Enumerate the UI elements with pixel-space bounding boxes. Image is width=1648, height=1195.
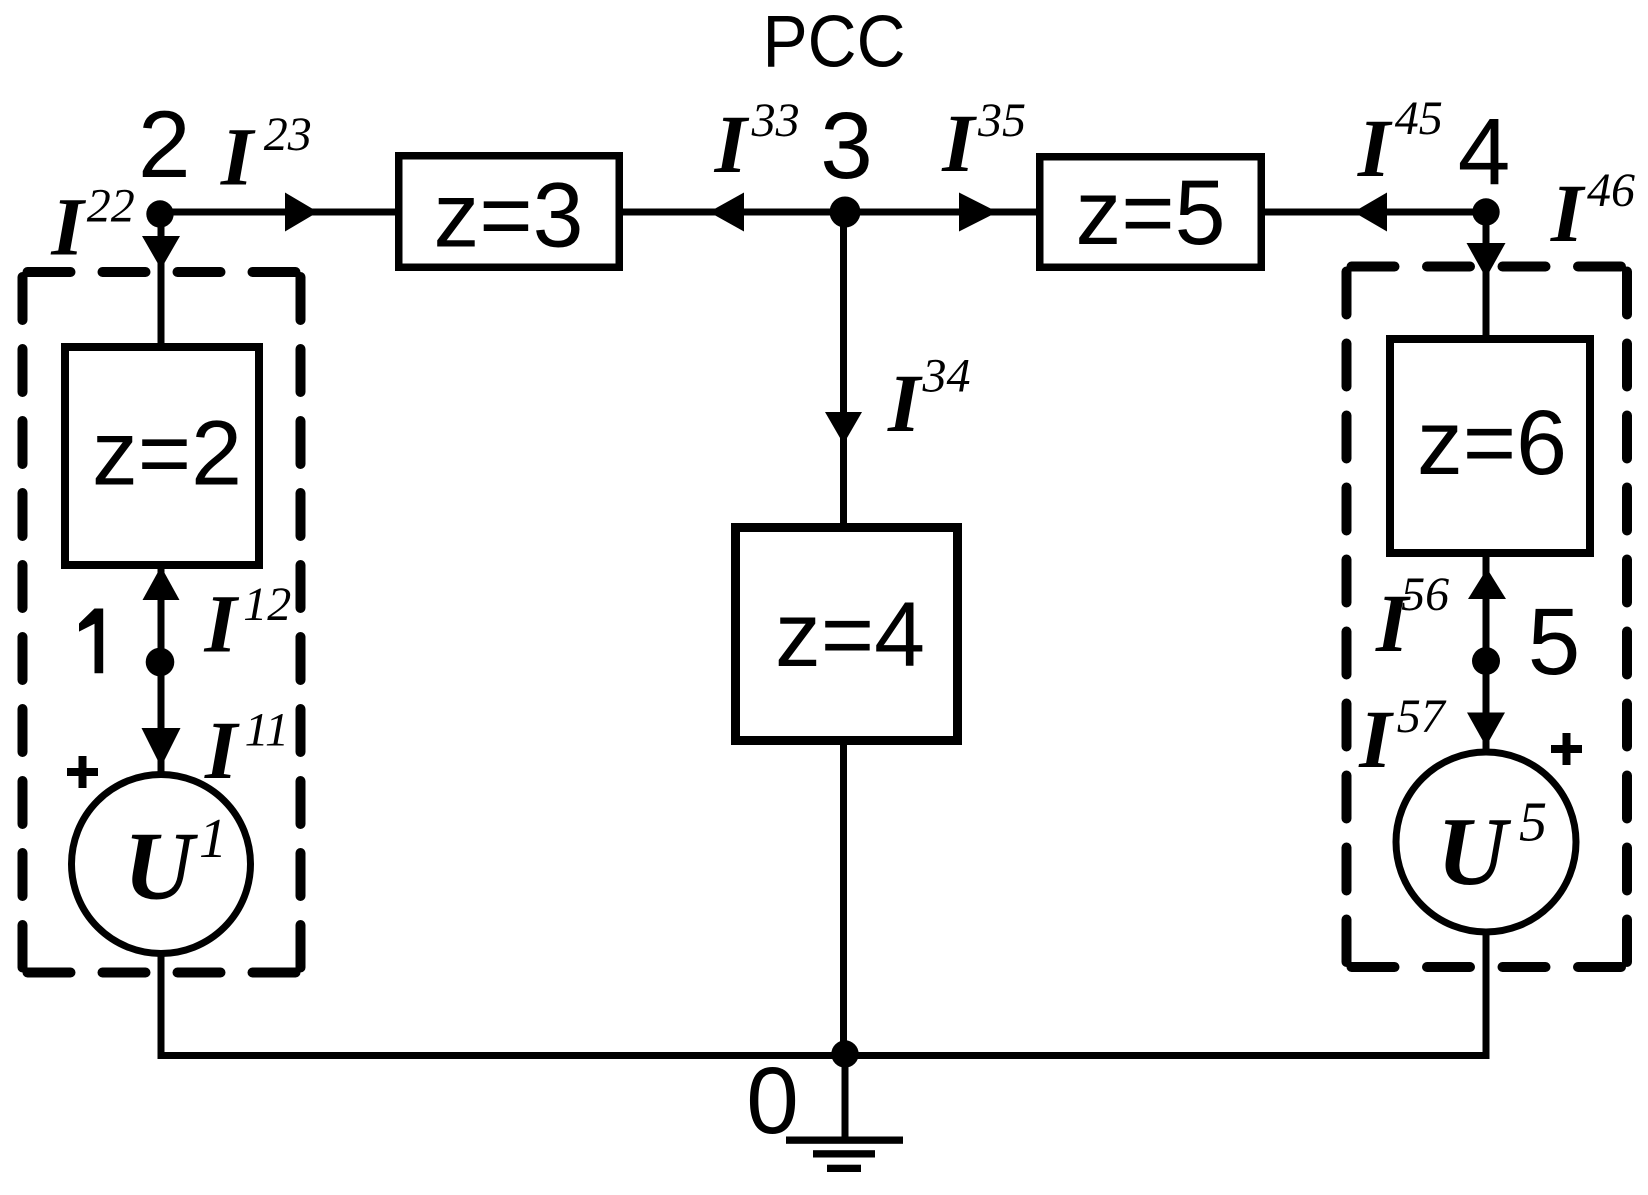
- svg-text:z=3: z=3: [433, 165, 583, 267]
- svg-text:PCC: PCC: [763, 0, 906, 82]
- svg-text:33: 33: [751, 94, 800, 147]
- svg-text:I: I: [714, 98, 750, 190]
- svg-text:I: I: [1550, 167, 1586, 259]
- svg-text:35: 35: [977, 94, 1026, 147]
- svg-text:U: U: [1437, 798, 1512, 905]
- svg-text:U: U: [124, 812, 199, 919]
- svg-text:5: 5: [1528, 589, 1581, 695]
- svg-text:57: 57: [1397, 690, 1447, 743]
- svg-text:3: 3: [820, 93, 873, 199]
- svg-text:z=2: z=2: [92, 403, 242, 505]
- svg-text:22: 22: [87, 180, 135, 233]
- svg-text:11: 11: [245, 704, 289, 757]
- svg-text:5: 5: [1519, 791, 1547, 853]
- svg-text:z=6: z=6: [1417, 392, 1567, 494]
- svg-text:I: I: [1358, 693, 1394, 785]
- svg-text:1: 1: [199, 808, 227, 870]
- svg-text:12: 12: [243, 578, 291, 631]
- svg-text:I: I: [1357, 102, 1393, 194]
- svg-text:I: I: [941, 97, 977, 189]
- svg-text:45: 45: [1395, 92, 1443, 145]
- svg-text:I: I: [220, 111, 256, 203]
- svg-text:2: 2: [138, 92, 191, 198]
- svg-text:4: 4: [1458, 99, 1511, 205]
- svg-text:I: I: [204, 704, 240, 796]
- svg-text:0: 0: [746, 1048, 799, 1154]
- svg-text:56: 56: [1401, 568, 1449, 621]
- svg-text:z=5: z=5: [1075, 162, 1225, 264]
- svg-text:I: I: [887, 357, 923, 449]
- svg-text:I: I: [50, 180, 86, 272]
- svg-text:I: I: [203, 577, 239, 669]
- svg-text:z=4: z=4: [775, 584, 925, 686]
- svg-text:46: 46: [1587, 164, 1635, 217]
- svg-text:34: 34: [922, 349, 971, 402]
- svg-text:23: 23: [264, 108, 312, 161]
